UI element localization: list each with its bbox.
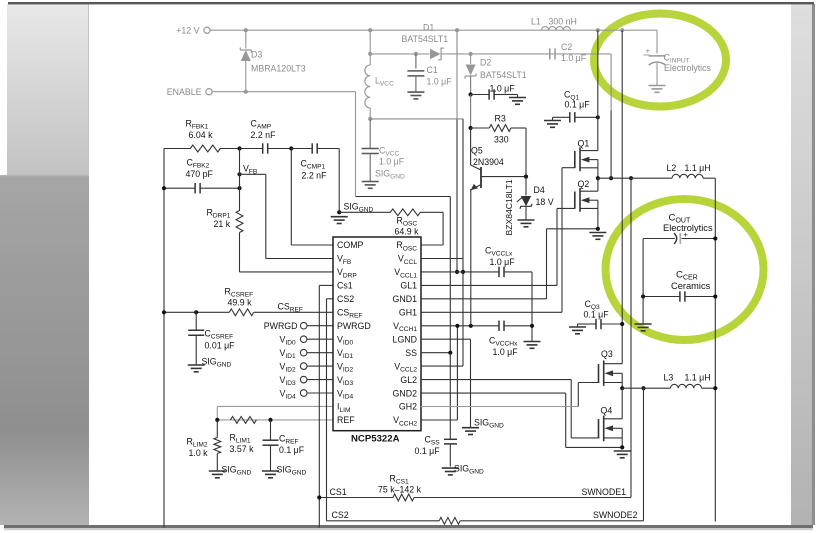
node CSREF left rail (162, 310, 166, 314)
wire CS2 pin rail (327, 299, 334, 521)
svg-text:C1: C1 (427, 65, 438, 75)
svg-text:0.1 μF: 0.1 μF (279, 445, 305, 455)
wire Q3 drain rail (621, 30, 623, 364)
node SWNODE1 (596, 176, 600, 180)
capacitor CCER ceramic (643, 270, 715, 302)
svg-text:BAT54SLT1: BAT54SLT1 (480, 70, 527, 80)
svg-text:Q4: Q4 (601, 406, 613, 416)
resistor RCSREF 49.9k (225, 287, 254, 316)
svg-text:64.9 k: 64.9 k (395, 227, 420, 237)
node RLIM junction (215, 418, 219, 422)
PWRGD terminal (264, 321, 333, 331)
wire left rail (163, 149, 165, 528)
svg-text:CS2: CS2 (337, 294, 354, 304)
svg-text:PWRGD: PWRGD (264, 321, 298, 331)
svg-text:SS: SS (405, 348, 417, 358)
wire VCCL pin row (421, 258, 463, 260)
ground SIGGND under CSS (442, 464, 484, 476)
svg-text:470 pF: 470 pF (186, 169, 214, 179)
node ENABLE/D3 junction (244, 90, 248, 94)
capacitor CREF 0.1uF (263, 420, 305, 471)
ground SIGGND under CREF (262, 465, 307, 478)
node L3 output junction (713, 386, 717, 390)
svg-text:D4: D4 (534, 185, 545, 195)
resistor RFBK1 6.04k (164, 119, 240, 152)
wire LGND row (421, 339, 471, 428)
diode D2 BAT54SLT1 (465, 54, 527, 95)
wire RDRP1 to VDRP pin (240, 233, 334, 272)
wire CS1 row (319, 178, 631, 497)
transistor Q4 (599, 388, 623, 441)
ENABLE input terminal (167, 87, 212, 97)
svg-text:6.04 k: 6.04 k (189, 130, 214, 140)
svg-text:BAT54SLT1: BAT54SLT1 (402, 34, 449, 44)
node Q4 source/GND2 (620, 445, 624, 449)
svg-text:Cs1: Cs1 (337, 281, 353, 291)
node CFBK2 right (237, 186, 241, 190)
node LVCC bottom junction (368, 117, 372, 121)
node D2 junction (469, 52, 473, 56)
wire VCCH rail (421, 326, 457, 420)
resistor ROSC 64.9k (339, 209, 443, 237)
resistor RLIM2 1.0k (187, 420, 221, 471)
svg-text:49.9 k: 49.9 k (228, 298, 253, 308)
svg-text:0.1 μF: 0.1 μF (415, 446, 441, 456)
wire ENABLE row (212, 91, 355, 93)
svg-text:1.1 μH: 1.1 μH (685, 373, 711, 383)
node Q5 base / D4 (524, 175, 528, 179)
wire Q1 source to SWNODE1 (597, 168, 599, 178)
label NCP5322A (351, 434, 400, 445)
wire C2 to SWNODE1 (610, 54, 612, 178)
wire REF row (217, 419, 333, 421)
wire +12V rail (210, 29, 657, 31)
wire ENABLE to SS routing (356, 92, 451, 353)
node 12V/LVCC junction (368, 28, 372, 32)
capacitor CQ3 0.1uF (582, 299, 623, 329)
wire CCMP1 to SIGGND (338, 149, 340, 213)
wire GND2 row to Q4 source (421, 393, 622, 447)
wire CSREF row (164, 311, 333, 313)
node CQ3/drain rail (620, 322, 624, 326)
svg-text:REF: REF (337, 415, 355, 425)
svg-text:SWNODE2: SWNODE2 (593, 510, 638, 520)
wire Q4 source to ground (621, 438, 623, 448)
ground at Q4 source (614, 451, 631, 458)
svg-text:COMP: COMP (337, 240, 364, 250)
node COMP junction (289, 146, 293, 150)
node VFB top (237, 146, 241, 150)
svg-text:Q3: Q3 (601, 349, 613, 359)
node VCCL1/VCCL rail (461, 270, 465, 274)
svg-text:2.2 nF: 2.2 nF (251, 130, 277, 140)
wire SWNODE2 row (622, 387, 670, 389)
wire SS row (421, 352, 450, 354)
label SWNODE2 (593, 510, 638, 520)
svg-text:Q5: Q5 (471, 146, 483, 156)
wire ROSC to pin (421, 212, 443, 245)
svg-text:GH1: GH1 (399, 308, 417, 318)
svg-text:CS1: CS1 (330, 487, 347, 497)
inductor L2 1.1uH (667, 163, 716, 178)
svg-text:BZX84C18LT1: BZX84C18LT1 (504, 179, 514, 235)
node SWNODE2 / CS2 rail (641, 386, 645, 390)
svg-text:1.0 μF: 1.0 μF (493, 347, 519, 357)
diode D1 BAT54SLT1 (402, 23, 449, 60)
svg-text:21 k: 21 k (214, 219, 231, 229)
inductor L1 300nH (531, 17, 577, 31)
svg-text:1.1 μH: 1.1 μH (685, 163, 711, 173)
transistor Q5 2N3904 (471, 128, 526, 326)
capacitor C2 1.0uF (550, 42, 587, 63)
svg-text:1.0 μF: 1.0 μF (427, 77, 453, 87)
svg-text:Q1: Q1 (578, 139, 590, 149)
wire VCCL rail from LVCC (370, 119, 463, 366)
wire VFB to pin (240, 174, 334, 258)
svg-text:PWRGD: PWRGD (337, 321, 371, 331)
svg-text:L3: L3 (664, 373, 674, 383)
resistor RDRP1 21k (207, 208, 243, 233)
node SWNODE1 / C2 rail (609, 176, 613, 180)
ground at CQ1 (544, 117, 561, 127)
wire GL1 row to Q2 gate (421, 208, 575, 285)
node R3 left junction (469, 126, 473, 130)
svg-text:+12 V: +12 V (176, 26, 199, 36)
capacitor CQ1 0.1uF (557, 90, 598, 123)
node D1 anode junction (368, 52, 372, 56)
wire VCCL1 row (421, 271, 532, 273)
capacitor CVCCHx 1.0uF (489, 321, 518, 357)
svg-text:NCP5322A: NCP5322A (351, 434, 400, 445)
node C1 junction (414, 52, 418, 56)
label SWNODE1 (582, 487, 627, 497)
wire 12V to R3 (470, 95, 472, 129)
wire Q1 drain rail (597, 30, 599, 150)
ground at D2 cap (509, 95, 526, 105)
svg-text:D1: D1 (423, 23, 434, 33)
svg-text:18 V: 18 V (536, 197, 554, 207)
svg-text:300 nH: 300 nH (549, 17, 577, 27)
ground at output caps (635, 324, 652, 331)
capacitor CFBK2 470pF (164, 158, 240, 194)
capacitor CVCCLx 1.0uF (485, 246, 515, 278)
inductor L3 1.1uH (664, 373, 716, 389)
svg-text:330: 330 (494, 135, 509, 145)
node SS junction (448, 351, 452, 355)
wire Cs1 pin rail (319, 285, 333, 527)
wire SWNODE1 row (598, 177, 672, 179)
ground under cap rail (524, 342, 541, 349)
node Q2 source/GND1 (596, 227, 600, 231)
VID0 terminal (280, 335, 334, 347)
svg-text:3.57 k: 3.57 k (230, 444, 255, 454)
node CSREF label (278, 302, 303, 314)
wire VFB rail (239, 149, 241, 212)
svg-text:C2: C2 (561, 42, 572, 52)
svg-text:GND1: GND1 (393, 294, 418, 304)
svg-text:D3: D3 (251, 50, 262, 60)
svg-text:GH2: GH2 (399, 402, 417, 412)
node CCSREF junction (194, 310, 198, 314)
ground SIGGND under RLIM2 (209, 465, 252, 478)
node COUT right (713, 236, 717, 240)
capacitor CSS 0.1uF (415, 435, 458, 467)
wire 12V to D1 row (369, 30, 371, 54)
transistor Q2 (575, 178, 598, 212)
node CCER right (713, 294, 717, 298)
wire 12V to CINPUT (656, 30, 658, 53)
svg-text:1.0 μF: 1.0 μF (490, 257, 516, 267)
wire VCCLx ground rail (531, 272, 533, 342)
wire COMP rail (291, 149, 333, 246)
ground SIGGND under CCSREF (188, 357, 232, 372)
resistor R3 330 (471, 114, 526, 145)
transistor Q1 (575, 139, 598, 172)
node 12V/Q1 drain rail (596, 28, 600, 32)
node 12V/VCCL1 rail (455, 28, 459, 32)
node CREF junction (268, 418, 272, 422)
svg-text:GL2: GL2 (400, 375, 417, 385)
node 12V/Q3 drain rail (620, 28, 624, 32)
resistor RLIM1 3.57k (230, 417, 257, 455)
ground under C1 (407, 92, 424, 99)
svg-text:Electrolytics: Electrolytics (663, 223, 713, 233)
transistor Q3 (599, 349, 623, 386)
wire R3 to base node (525, 128, 527, 177)
svg-text:ENABLE: ENABLE (167, 87, 202, 97)
svg-text:0.01 μF: 0.01 μF (205, 341, 236, 351)
svg-text:Ceramics: Ceramics (671, 281, 711, 291)
svg-text:D2: D2 (480, 58, 491, 68)
capacitor CCMP1 2.2nF (291, 143, 339, 180)
wire D1 row (370, 53, 611, 55)
resistor RCS2 (439, 517, 460, 524)
wire rail 12V to VCCL1 row (456, 30, 458, 272)
label CS1 (330, 487, 347, 497)
wire ILIM row (217, 406, 333, 420)
svg-text:Electrolytics: Electrolytics (664, 63, 712, 73)
svg-text:L1: L1 (531, 17, 541, 27)
node VFB (237, 164, 258, 177)
label CS2 (332, 510, 349, 520)
diode D4 zener 18V BZX84C18LT1 (504, 177, 554, 236)
wire GL2 row to Q4 gate (421, 380, 599, 438)
svg-text:GL1: GL1 (400, 281, 417, 291)
inductor LVCC (365, 54, 394, 119)
+12V input terminal (176, 26, 210, 36)
svg-text:0.1 μF: 0.1 μF (584, 310, 610, 320)
resistor RCS1 75k-142k (378, 474, 422, 501)
svg-text:+: + (646, 47, 651, 56)
svg-text:2.2 nF: 2.2 nF (302, 171, 328, 181)
svg-text:MBRA120LT3: MBRA120LT3 (251, 64, 306, 74)
wire SS to CSS (449, 353, 451, 439)
VID2 terminal (280, 361, 334, 373)
wire CS2 row (327, 388, 644, 521)
wire GND1 row to Q2 source (421, 229, 598, 299)
svg-text:GND2: GND2 (393, 388, 418, 398)
wire Q3 source to SWNODE2 (621, 383, 623, 389)
node CQ1/drain rail (596, 115, 600, 119)
capacitor CAMP 2.2nF (240, 119, 292, 154)
svg-text:1.0 μF: 1.0 μF (561, 53, 587, 63)
VID1 terminal (280, 348, 334, 360)
svg-text:75 k–142 k: 75 k–142 k (378, 485, 422, 495)
capacitor CVCC 1.0uF (362, 119, 405, 182)
diode D3 MBRA120LT3 (240, 30, 305, 91)
svg-text:1.0 μF: 1.0 μF (490, 84, 516, 94)
node CVCCHx ground rail (530, 324, 534, 328)
node SWNODE2 (620, 386, 624, 390)
ground under CINPUT (649, 86, 666, 93)
capacitor C1 1.0uF (407, 54, 452, 92)
node CFBK2 left (162, 186, 166, 190)
op-amp U1 IC NCP5322A box (333, 237, 421, 431)
node VCCH1 rail junction (455, 324, 459, 328)
wire VCCH1 row (421, 325, 532, 327)
ground SIGGND at LGND (462, 418, 504, 435)
svg-text:0.1 μF: 0.1 μF (565, 100, 591, 110)
svg-text:2N3904: 2N3904 (473, 157, 504, 167)
svg-text:CS2: CS2 (332, 510, 349, 520)
annotation ellipse input caps (594, 14, 726, 107)
annotation ellipse output caps (606, 199, 764, 340)
ground at CQ3 (569, 324, 586, 334)
node 12V/D3 junction (244, 28, 248, 32)
capacitor CCSREF 0.01uF (188, 312, 235, 365)
svg-text:Q2: Q2 (578, 179, 590, 189)
VID3 terminal (280, 375, 334, 387)
node CCER left (641, 294, 645, 298)
svg-text:1.0 μF: 1.0 μF (379, 157, 405, 167)
svg-text:R3: R3 (495, 114, 506, 124)
node VCCH1 emitter junction (469, 324, 473, 328)
svg-text:1.0 k: 1.0 k (189, 448, 209, 458)
svg-text:L2: L2 (667, 163, 677, 173)
node CS1 (317, 495, 321, 499)
wire GH1 row to Q1 gate (421, 168, 575, 313)
wire Q2 source to ground (597, 208, 599, 228)
wire VOUT rail (714, 178, 716, 521)
capacitor CINPUT electrolytic (644, 47, 712, 86)
ground SIGGND above IC (331, 202, 374, 224)
capacitor COUT electrolytic (643, 213, 715, 297)
svg-text:SWNODE1: SWNODE1 (582, 487, 627, 497)
capacitor 1.0uF at D2 (469, 84, 516, 100)
wire GH2 row to Q3 gate (421, 383, 599, 407)
wire caps return to ground (642, 297, 644, 325)
ground at Q2 source (589, 233, 606, 240)
node VCCL1/12V rail (455, 270, 459, 274)
ground SIGGND under CVCC (362, 169, 405, 189)
VID4 terminal (280, 388, 334, 400)
ground under D4 (518, 220, 535, 227)
svg-text:LGND: LGND (393, 334, 417, 344)
node SWNODE1 / CS1 rail (629, 176, 633, 180)
